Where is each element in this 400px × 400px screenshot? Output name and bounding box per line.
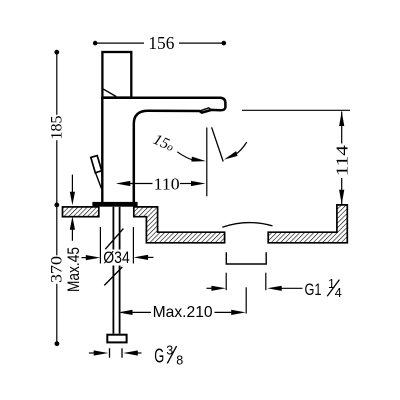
svg-text:110: 110	[154, 174, 180, 193]
faucet aerator notch	[200, 108, 212, 111]
svg-text:G1: G1	[305, 280, 322, 299]
counter deck left slab	[63, 207, 99, 217]
faucet handle notch	[102, 88, 116, 96]
svg-text:Max.210: Max.210	[153, 304, 213, 321]
dimension 185 top dot	[54, 50, 59, 55]
dimension 156 left dot	[93, 41, 98, 46]
shank break line lower	[104, 267, 122, 285]
dimension diam 34 left arrow	[82, 257, 88, 259]
dimension 114 line	[341, 112, 343, 205]
svg-text:156: 156	[148, 33, 174, 53]
faucet base flange	[92, 202, 137, 207]
dimension diam 34 right arrow	[147, 256, 154, 258]
dimension 370 line	[56, 205, 58, 344]
drain centre extension line	[245, 287, 247, 313]
faucet shank	[113, 207, 119, 334]
svg-text:Max.45: Max.45	[65, 247, 83, 292]
svg-text:370: 370	[48, 256, 65, 283]
dimension 185 line	[56, 52, 58, 205]
dimension G3/8 left arrow	[89, 352, 94, 354]
svg-text:114: 114	[332, 145, 351, 176]
dimension 156 line	[95, 42, 224, 44]
basin hump arc over drain	[222, 223, 272, 228]
svg-text:Ø34: Ø34	[103, 248, 130, 267]
dimension G3/8 right arrow	[138, 352, 142, 354]
extension line at aerator outlet	[206, 128, 208, 197]
dimension G1 1/4 left arrow	[207, 287, 213, 289]
dimension G1 1/4 right arrow	[281, 287, 303, 289]
shank break line upper	[105, 229, 123, 250]
faucet handle	[102, 52, 131, 98]
svg-text:G: G	[154, 346, 164, 368]
aerator level line	[242, 109, 350, 111]
counter deck right slab with step	[134, 207, 225, 243]
dimension G1 1/4 extension lines	[226, 273, 266, 291]
svg-text:4: 4	[335, 286, 342, 300]
dimension diam 34 extension lines	[100, 227, 133, 264]
dimension Max.45 lower arrow	[71, 222, 73, 241]
dimension diam 34 text	[102, 250, 132, 265]
dimension G3/8 ticks	[110, 348, 123, 357]
dimension Max.210 right arrow	[215, 311, 233, 313]
svg-text:185: 185	[49, 116, 66, 140]
faucet side lever	[91, 156, 102, 173]
dimension 114 bottom arrow	[339, 190, 344, 205]
dimension 114 top arrow	[339, 112, 344, 127]
dimension 156 right dot	[222, 41, 227, 46]
shank bottom nut G3/8	[107, 335, 126, 343]
dimension 110 left arrow	[116, 181, 131, 186]
dimension Max.45 upper arrow	[71, 175, 73, 198]
dimension 110 right arrow	[191, 181, 206, 186]
angle 15 deg tilted line	[212, 127, 224, 161]
dimension 370 bottom dot	[55, 341, 60, 346]
dimension 185/370 shared dot	[54, 203, 59, 208]
faucet body outline	[101, 98, 103, 203]
svg-text:8: 8	[176, 353, 183, 367]
angle 15 deg leader arrow	[177, 152, 198, 161]
dimension Max.210 left arrow	[118, 310, 133, 315]
drain tailpiece bracket	[226, 252, 266, 264]
angle 15 deg arc arrow	[235, 142, 247, 155]
dimension 110 line	[128, 183, 192, 185]
basin bottom right slab and wall	[268, 205, 347, 243]
